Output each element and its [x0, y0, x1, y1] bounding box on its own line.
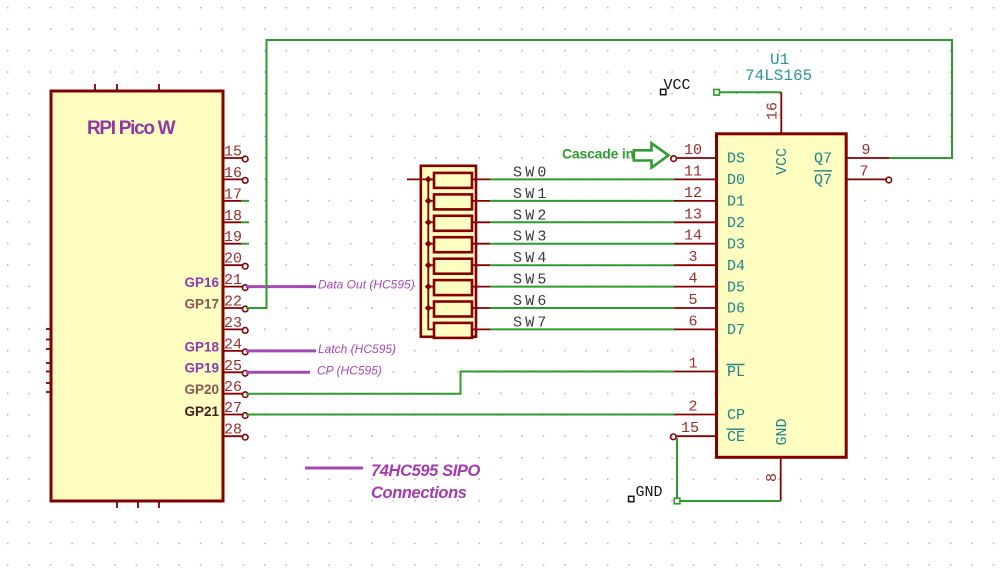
pin 5 D6 [674, 292, 745, 318]
svg-text:D6: D6 [727, 301, 745, 318]
svg-text:23: 23 [224, 315, 242, 332]
svg-text:21: 21 [224, 272, 242, 289]
pin 25 (Pico) [223, 358, 248, 376]
pin 13 D2 [674, 206, 745, 232]
component switch block SW body [407, 166, 476, 337]
svg-text:D2: D2 [727, 215, 745, 232]
switch SW7 element [434, 323, 490, 338]
pin 1 PL [674, 356, 745, 382]
switch SW0 element [428, 173, 490, 188]
svg-text:7: 7 [859, 163, 868, 180]
svg-text:GND: GND [636, 484, 663, 501]
wire SW7 to D7 [490, 328, 674, 330]
svg-text:CE: CE [727, 429, 745, 446]
svg-text:CP (HC595): CP (HC595) [317, 363, 382, 377]
wire stub pin 17 [241, 200, 249, 202]
pin 4 D5 [674, 271, 745, 297]
switch SW6 element [428, 302, 490, 317]
component RPI Pico W body [46, 84, 223, 508]
pin 21 (Pico) [223, 272, 248, 290]
power symbol GND [629, 484, 663, 502]
svg-text:GP21: GP21 [184, 404, 219, 419]
junction diamonds on switch bus [425, 176, 432, 312]
pin 19 (Pico) [223, 229, 242, 246]
svg-text:74LS165: 74LS165 [745, 67, 812, 85]
wire SW0 to D0 [490, 178, 674, 180]
pin 14 D3 [674, 228, 745, 254]
pin 3 D4 [674, 249, 745, 275]
svg-text:CP: CP [727, 407, 745, 424]
wire stub pin 18 [241, 221, 249, 223]
legend purple line [305, 467, 363, 470]
svg-text:16: 16 [765, 102, 782, 120]
svg-text:2: 2 [688, 399, 697, 416]
svg-text:13: 13 [684, 206, 702, 223]
svg-text:14: 14 [684, 228, 702, 245]
svg-text:GP20: GP20 [184, 382, 219, 397]
svg-text:Q7: Q7 [814, 151, 832, 168]
svg-text:Data Out (HC595): Data Out (HC595) [318, 278, 415, 292]
switch SW2 element [428, 216, 490, 231]
svg-text:GP19: GP19 [184, 361, 219, 376]
svg-text:GP16: GP16 [184, 275, 219, 290]
wire SW6 to D6 [490, 307, 674, 309]
svg-text:SW7: SW7 [513, 314, 550, 331]
switch SW1 element [428, 194, 490, 209]
power symbol VCC [661, 77, 691, 95]
svg-text:15: 15 [681, 420, 699, 437]
svg-text:17: 17 [224, 186, 242, 203]
pin 24 (Pico) [223, 336, 248, 354]
switch SW5 element [428, 280, 490, 295]
svg-text:D0: D0 [727, 172, 745, 189]
svg-text:6: 6 [688, 313, 697, 330]
svg-text:20: 20 [224, 251, 242, 268]
svg-text:5: 5 [688, 292, 697, 309]
wire SW3 to D3 [490, 243, 674, 245]
wire Data Out (purple) from pin 21 [246, 285, 316, 288]
pin 23 (Pico) [223, 315, 248, 333]
svg-text:16: 16 [224, 165, 242, 182]
svg-text:D5: D5 [727, 279, 745, 296]
switch SW4 element [428, 259, 490, 274]
svg-text:Latch (HC595): Latch (HC595) [318, 342, 396, 356]
wire Latch (purple) from pin 24 [246, 349, 316, 352]
svg-text:SW5: SW5 [513, 272, 550, 289]
wire stub pin 19 [241, 243, 249, 245]
svg-text:11: 11 [684, 163, 702, 180]
svg-text:15: 15 [224, 144, 242, 161]
svg-text:VCC: VCC [774, 148, 791, 175]
switch SW3 element [428, 237, 490, 252]
svg-text:19: 19 [224, 229, 242, 246]
svg-text:SW6: SW6 [513, 293, 550, 310]
pin 11 D0 [674, 163, 745, 189]
svg-text:26: 26 [224, 379, 242, 396]
svg-text:D1: D1 [727, 194, 745, 211]
wire cascade loop pin22 to Q7 [246, 40, 952, 308]
pin 15 CE [671, 420, 746, 446]
component U1 74LS165 body [717, 134, 847, 458]
pin 10 DS [671, 142, 745, 168]
svg-text:RPI Pico W: RPI Pico W [87, 118, 176, 139]
pin 28 (Pico) [223, 422, 248, 440]
pin 20 (Pico) [223, 251, 248, 269]
svg-text:27: 27 [224, 400, 242, 417]
pin 6 D7 [674, 313, 745, 339]
svg-text:SW3: SW3 [513, 229, 550, 246]
pin 8 GND stub [764, 457, 781, 501]
wire end square VCC [714, 90, 720, 96]
svg-text:25: 25 [224, 358, 242, 375]
wire end square GND [674, 498, 680, 504]
pin 17 (Pico) [223, 186, 242, 203]
svg-text:Connections: Connections [371, 484, 467, 502]
pin 9 Q7 [814, 142, 889, 168]
svg-text:4: 4 [688, 271, 697, 288]
wire SW5 to D5 [490, 286, 674, 288]
svg-text:22: 22 [224, 294, 242, 311]
svg-text:D4: D4 [727, 258, 745, 275]
svg-text:D3: D3 [727, 236, 745, 253]
svg-text:1: 1 [688, 356, 697, 373]
svg-text:8: 8 [764, 473, 781, 482]
pin 22 (Pico) [223, 294, 248, 312]
wire pin26 to PL [246, 372, 674, 394]
pin 7 Q7 inverted [814, 163, 892, 189]
pin 16 VCC stub [765, 92, 782, 134]
svg-text:D7: D7 [727, 322, 745, 339]
svg-text:VCC: VCC [664, 77, 691, 94]
svg-text:GP17: GP17 [184, 296, 219, 311]
svg-text:74HC595 SIPO: 74HC595 SIPO [371, 462, 480, 480]
wire VCC to pin16 [717, 91, 782, 93]
wire SW1 to D1 [490, 200, 674, 202]
wire SW4 to D4 [490, 264, 674, 266]
svg-text:Q7: Q7 [814, 172, 832, 189]
wire SW2 to D2 [490, 221, 674, 223]
svg-text:24: 24 [224, 336, 242, 353]
pin 15 (Pico) [223, 144, 248, 162]
svg-text:GP18: GP18 [184, 339, 219, 354]
wire pin27 to CP [246, 414, 674, 416]
wire CP (purple) from pin 25 [246, 371, 310, 374]
svg-text:Cascade in: Cascade in [562, 146, 634, 162]
pin 27 (Pico) [223, 400, 248, 418]
svg-text:SW0: SW0 [513, 164, 550, 181]
pin 2 CP [674, 399, 745, 425]
svg-text:28: 28 [224, 422, 242, 439]
svg-text:3: 3 [688, 249, 697, 266]
wire CE to GND [677, 438, 781, 501]
svg-text:GND: GND [774, 418, 791, 445]
pin 26 (Pico) [223, 379, 248, 397]
svg-text:SW4: SW4 [513, 250, 550, 267]
pin 16 (Pico) [223, 165, 248, 183]
svg-text:SW1: SW1 [513, 186, 550, 203]
svg-text:SW2: SW2 [513, 207, 550, 224]
pin 12 D1 [674, 185, 745, 211]
pin 18 (Pico) [223, 208, 242, 225]
svg-text:18: 18 [224, 208, 242, 225]
svg-text:12: 12 [684, 185, 702, 202]
svg-text:DS: DS [727, 151, 745, 168]
svg-text:PL: PL [727, 364, 745, 381]
cascade arrow [634, 143, 669, 167]
svg-text:10: 10 [684, 142, 702, 159]
svg-text:9: 9 [861, 142, 870, 159]
